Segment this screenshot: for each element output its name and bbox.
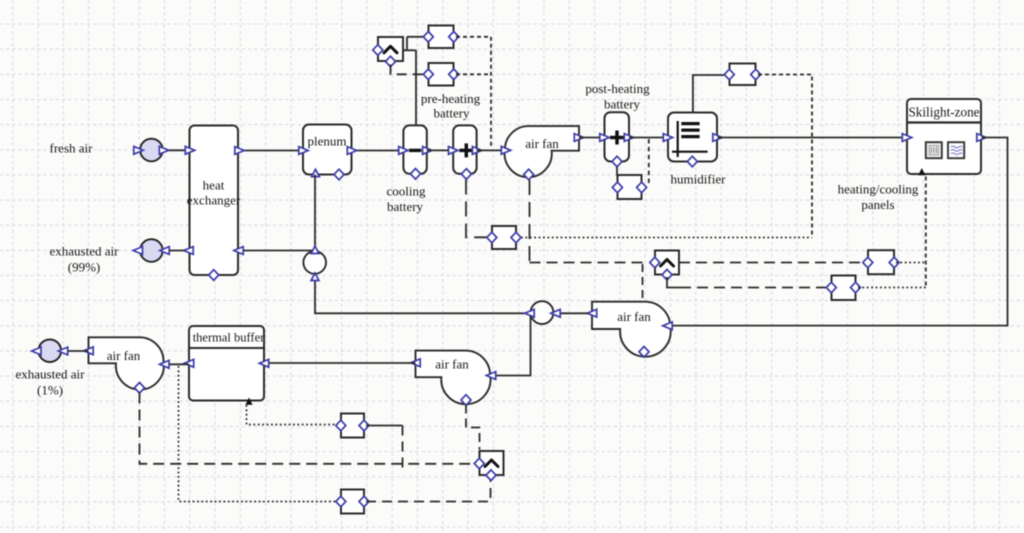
svg-text:heating/cooling: heating/cooling bbox=[838, 182, 919, 197]
sensor box B bbox=[826, 276, 860, 301]
plenum bbox=[299, 125, 357, 180]
wire source to fan 4 bbox=[64, 350, 89, 352]
wire cooling to pre-heating battery bbox=[427, 149, 453, 151]
wire post-heating diamond down to sensor box F bbox=[616, 167, 618, 177]
dashed wire box G right then down bbox=[758, 75, 812, 238]
sensor box A bbox=[863, 250, 899, 274]
wire HX to exhausted source bbox=[165, 250, 185, 252]
svg-text:(1%): (1%) bbox=[37, 383, 63, 398]
dotted box E to vertical bbox=[456, 73, 491, 75]
dashed stub to fan 2 top bbox=[642, 264, 644, 302]
svg-text:thermal buffer: thermal buffer bbox=[193, 331, 265, 345]
air fan 3 (recirculation) bbox=[411, 351, 496, 406]
pre-heating battery block (plus) bbox=[449, 125, 482, 179]
source exhausted air 99% bbox=[133, 239, 169, 262]
wire S1 down to cooling battery top bbox=[415, 50, 417, 125]
long-dash control line y262 right part bbox=[679, 262, 864, 264]
svg-text:air fan: air fan bbox=[435, 357, 469, 372]
wire air fan 3 to thermal buffer bbox=[266, 362, 416, 364]
long-dash control line y262 left part bbox=[530, 262, 649, 264]
junction node below plenum bbox=[303, 246, 326, 280]
wire humidifier to Skilight-zone bbox=[718, 137, 908, 139]
dashed fan 3 diamond to scheduler S2 top bbox=[466, 405, 480, 450]
dashed pre-heating diamond to box C bbox=[466, 180, 488, 238]
long-dash S1 diamond to box E bbox=[391, 65, 425, 75]
dotted box D to vertical bbox=[456, 36, 491, 38]
svg-text:exchanger: exchanger bbox=[187, 193, 241, 208]
long-dash box R2 to scheduler S2 bbox=[366, 478, 491, 502]
Skilight-zone block bbox=[902, 99, 986, 175]
svg-text:humidifier: humidifier bbox=[671, 172, 727, 187]
dashed control from Skilight bottom down bbox=[925, 177, 927, 288]
post-heating battery block (plus) bbox=[600, 112, 634, 167]
long-dash fan 4 diamond to scheduler S2 bbox=[140, 393, 476, 464]
svg-text:plenum: plenum bbox=[308, 134, 347, 149]
svg-text:(99%): (99%) bbox=[68, 260, 101, 275]
wire fresh-air source to heat exchanger bbox=[163, 149, 188, 151]
svg-text:fresh air: fresh air bbox=[50, 141, 94, 156]
heat exchanger HX bbox=[184, 126, 244, 281]
svg-text:air fan: air fan bbox=[107, 348, 141, 363]
dashed stub duct to box F bbox=[648, 139, 650, 186]
svg-text:air fan: air fan bbox=[525, 136, 559, 151]
dotted thermal buffer control lead bbox=[247, 405, 337, 425]
scheduler S2 bbox=[474, 451, 503, 481]
svg-text:Skilight-zone: Skilight-zone bbox=[908, 105, 979, 120]
dotted control line y237 bbox=[521, 237, 812, 239]
air fan 4 (exhaust) bbox=[84, 337, 169, 393]
svg-text:air fan: air fan bbox=[617, 309, 651, 324]
wire mixing node branch down to air fan 3 bbox=[495, 316, 531, 376]
sensor box E bbox=[423, 63, 458, 86]
thermal buffer bbox=[184, 326, 268, 405]
svg-text:post-heating: post-heating bbox=[585, 81, 650, 96]
dashed vertical to supply duct bbox=[490, 37, 492, 148]
wire return to heat exchanger bbox=[243, 250, 315, 252]
long-dash control line y287 bbox=[680, 287, 828, 289]
svg-text:exhausted air: exhausted air bbox=[50, 244, 120, 259]
svg-text:pre-heating: pre-heating bbox=[421, 91, 481, 106]
dashed fan1 diamond down to control line bbox=[529, 180, 531, 263]
wire post-heating to humidifier bbox=[629, 137, 668, 139]
scheduler S1 bbox=[373, 37, 403, 67]
wire S1 right to box D bbox=[403, 49, 416, 51]
wire left fan to thermal buffer bbox=[168, 363, 189, 365]
wire plenum to cooling battery bbox=[352, 150, 405, 152]
scheduler S3 bbox=[650, 251, 679, 281]
wire box R1 right then down bbox=[366, 425, 403, 427]
svg-text:battery: battery bbox=[604, 97, 641, 112]
svg-text:cooling: cooling bbox=[387, 184, 426, 199]
svg-text:battery: battery bbox=[433, 106, 470, 121]
dotted box A to skylight control bbox=[896, 262, 926, 264]
svg-text:battery: battery bbox=[387, 199, 424, 214]
sensor box G above humidifier bbox=[724, 64, 760, 86]
sensor box C bbox=[487, 226, 521, 249]
mixing node circle bbox=[525, 301, 560, 324]
source exhausted air 1% bbox=[32, 339, 68, 362]
wire scheduler S3 diamond down right bbox=[667, 277, 680, 288]
source fresh air bbox=[134, 139, 169, 162]
wire junction down then right to mixing node bbox=[315, 282, 527, 314]
wire pre-heating to air fan 1 bbox=[477, 149, 505, 151]
sensor box F below post-heating bbox=[612, 175, 646, 199]
sensor box R2 bbox=[336, 490, 369, 514]
wire humidifier top to box G bbox=[693, 75, 727, 113]
wire fan 2 to mixing node bbox=[558, 312, 588, 314]
humidifier bbox=[663, 113, 722, 167]
wire Skilight out right down to air fan 2 bbox=[671, 138, 1008, 326]
svg-text:heat: heat bbox=[203, 178, 225, 193]
wire plenum bottom down bbox=[314, 175, 316, 251]
wire air fan 1 to post-heating bbox=[579, 137, 605, 139]
sensor box R1 bbox=[336, 414, 369, 438]
cooling battery block (minus) bbox=[399, 125, 432, 179]
air fan 1 (supply) bbox=[501, 126, 583, 180]
air fan 2 (return) bbox=[587, 302, 672, 357]
wire heat exchanger to plenum bbox=[238, 150, 303, 152]
svg-text:panels: panels bbox=[861, 197, 894, 212]
dotted box B to skylight control bbox=[858, 287, 926, 289]
dotted vertical from buffer inlet wire bbox=[179, 366, 337, 502]
svg-text:exhausted air: exhausted air bbox=[16, 367, 86, 382]
sensor box D bbox=[423, 26, 458, 49]
